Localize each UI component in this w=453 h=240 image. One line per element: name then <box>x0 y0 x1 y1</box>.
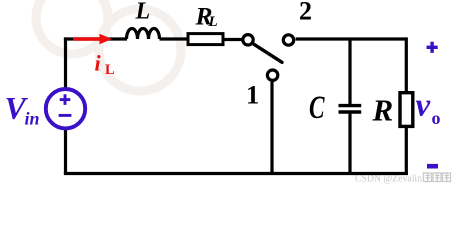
svg-text:o: o <box>432 108 441 128</box>
bottom rail wire <box>64 172 408 175</box>
current arrow iL <box>73 34 112 45</box>
wire: top-left vertical from corner down to source top <box>64 37 67 89</box>
svg-text:in: in <box>25 109 40 129</box>
source minus sign <box>59 114 72 117</box>
resistor RL <box>188 34 223 45</box>
output plus sign <box>427 42 438 53</box>
capacitor branch: bottom vertical <box>348 114 351 173</box>
wire: RL to switch pole <box>223 38 242 41</box>
label Vin <box>5 90 40 129</box>
capacitor branch: top vertical <box>348 39 351 105</box>
source plus sign <box>60 94 71 105</box>
wire: top-right vertical down to R <box>405 37 408 92</box>
svg-text:1: 1 <box>246 80 259 110</box>
wire: contact 2 to top-right corner <box>296 37 407 40</box>
svg-text:v: v <box>416 88 431 124</box>
wire: inductor to RL <box>160 37 190 40</box>
label iL <box>95 51 116 79</box>
faint background watermark arcs (decorative) <box>36 0 181 91</box>
wire: R bottom to bottom rail <box>405 128 408 175</box>
svg-text:L: L <box>105 62 115 78</box>
svg-text:i: i <box>95 51 102 76</box>
label vo <box>416 88 441 129</box>
source Vin circle <box>46 89 85 128</box>
switch contact 1 <box>267 70 277 80</box>
svg-text:C: C <box>309 90 325 126</box>
label RL <box>195 2 218 31</box>
switch contact 2 <box>283 35 293 45</box>
watermark text (decorative) <box>355 173 451 185</box>
capacitor C plates <box>339 106 362 112</box>
svg-text:L: L <box>208 14 218 30</box>
switch pole contact <box>243 35 253 45</box>
svg-text:L: L <box>135 0 151 25</box>
wire: contact 1 down to bottom rail <box>270 82 273 173</box>
resistor R (load) <box>400 93 413 127</box>
wire: source bottom to bottom rail <box>64 129 67 175</box>
svg-text:R: R <box>372 93 394 128</box>
wire: top rail from corner to inductor <box>64 37 127 40</box>
output minus sign <box>427 164 438 169</box>
inductor L <box>127 29 160 39</box>
switch blade <box>254 44 282 62</box>
svg-text:2: 2 <box>299 0 312 26</box>
